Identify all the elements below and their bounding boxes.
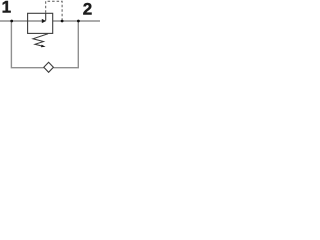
svg-text:1: 1: [2, 0, 11, 16]
svg-text:2: 2: [83, 0, 92, 18]
